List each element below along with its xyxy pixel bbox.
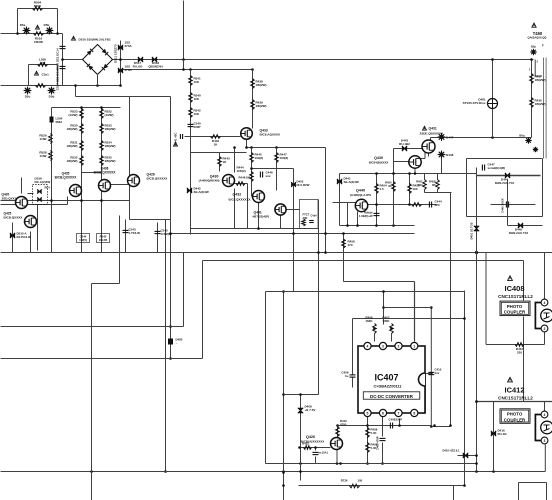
svg-text:D510 S10(M4).2A).FB1: D510 S10(M4).2A).FB1 — [79, 38, 111, 42]
svg-text:B/CB.QXXXXX: B/CB.QXXXXX — [55, 175, 78, 179]
svg-text:xxmd(E)1(R): xxmd(E)1(R) — [488, 166, 506, 170]
svg-text:100K: 100K — [382, 319, 390, 323]
svg-text:3: 3 — [382, 345, 384, 349]
svg-text:1/4W: 1/4W — [39, 154, 46, 158]
svg-text:SE.A(2)4W: SE.A(2)4W — [344, 180, 359, 184]
svg-text:T460: T460 — [533, 31, 543, 36]
svg-text:10K: 10K — [194, 80, 200, 84]
svg-text:R726: R726 — [341, 479, 348, 483]
svg-text:R5: R5 — [432, 183, 436, 187]
svg-text:1W(2W): 1W(2W) — [67, 159, 78, 163]
svg-text:QA05AQXX.QQ: QA05AQXX.QQ — [528, 36, 547, 40]
svg-text:5MH: 5MH — [56, 120, 62, 124]
svg-text:D447: D447 — [446, 136, 454, 140]
svg-text:4: 4 — [544, 301, 546, 305]
svg-text:100: 100 — [413, 187, 418, 191]
svg-text:8: 8 — [413, 412, 415, 416]
svg-text:1xx: 1xx — [435, 371, 440, 375]
svg-text:DC-DC CONVERTER: DC-DC CONVERTER — [370, 394, 414, 399]
svg-text:1.TF3.W: 1.TF3.W — [129, 231, 141, 235]
svg-text:C515 2E2.GC.H: C515 2E2.GC.H — [56, 49, 60, 71]
svg-text:10K: 10K — [194, 112, 200, 116]
svg-text:100: 100 — [246, 176, 251, 180]
svg-text:1D: 1D — [388, 184, 391, 188]
svg-text:RU.AO: RU.AO — [133, 64, 143, 68]
svg-text:B6q: B6q — [519, 134, 524, 138]
svg-text:2SD.QXXX: 2SD.QXXX — [2, 197, 17, 201]
svg-text:FTCT: FTCT — [303, 213, 310, 217]
svg-text:470: 470 — [348, 243, 353, 247]
svg-text:C409 470P: C409 470P — [376, 436, 380, 450]
svg-text:4R7: 4R7 — [40, 61, 46, 65]
svg-text:IC407: IC407 — [374, 373, 398, 383]
svg-text:1W(2W): 1W(2W) — [67, 127, 78, 131]
svg-text:B5p: B5p — [531, 45, 536, 49]
svg-text:R457: R457 — [416, 180, 423, 184]
svg-text:Q431: Q431 — [429, 127, 437, 131]
svg-text:223: 223 — [435, 203, 440, 207]
svg-text:NC.A(2)4W: NC.A(2)4W — [35, 180, 51, 184]
svg-text:FR2W: FR2W — [34, 40, 43, 44]
svg-text:STV20.STV.Diox: STV20.STV.Diox — [463, 101, 486, 105]
svg-text:3: 3 — [544, 439, 546, 443]
svg-text:Rdtvbt: Rdtvbt — [364, 211, 373, 215]
svg-text:Q432: Q432 — [233, 193, 242, 197]
svg-text:(1/2W): (1/2W) — [105, 113, 114, 117]
svg-text:R44: R44 — [418, 183, 423, 187]
svg-text:CNC1S171RLL2: CNC1S171RLL2 — [498, 396, 533, 401]
svg-text:B/C64(B)XXXX: B/C64(B)XXXX — [369, 160, 389, 164]
svg-text:D5a: D5a — [20, 23, 26, 27]
svg-text:xxx: xxx — [266, 174, 271, 178]
svg-text:6: 6 — [382, 412, 384, 416]
svg-text:B/CB.QXXXX: B/CB.QXXXX — [4, 216, 23, 220]
svg-text:1W(2W): 1W(2W) — [105, 159, 116, 163]
svg-text:--: -- — [176, 341, 178, 345]
svg-text:B/CB.QXXXXX: B/CB.QXXXXX — [147, 177, 168, 181]
svg-text:20K: 20K — [303, 216, 308, 220]
svg-text:5.4K: 5.4K — [371, 431, 378, 435]
svg-text:C517 2E2.GC.H: C517 2E2.GC.H — [56, 69, 60, 91]
svg-text:PHOTO: PHOTO — [507, 412, 523, 417]
svg-text:2: 2 — [544, 327, 546, 331]
svg-text:1u: 1u — [345, 374, 349, 378]
svg-text:RU.1B2: RU.1B2 — [399, 142, 410, 146]
svg-text:220P: 220P — [396, 418, 403, 422]
svg-text:10K(2): 10K(2) — [237, 169, 246, 173]
svg-text:DHN.2AU.T01: DHN.2AU.T01 — [509, 231, 529, 235]
svg-text:1W(2W): 1W(2W) — [535, 78, 546, 82]
svg-text:1W(2W): 1W(2W) — [67, 144, 78, 148]
svg-text:R458: R458 — [429, 180, 436, 184]
svg-text:F: F — [542, 44, 544, 48]
svg-text:D5d: D5d — [49, 95, 55, 99]
svg-text:1/4W(B): 1/4W(B) — [161, 232, 172, 236]
svg-text:RU.1B: RU.1B — [498, 432, 508, 436]
svg-text:100(2): 100(2) — [255, 156, 264, 160]
svg-text:IC408: IC408 — [504, 284, 524, 293]
svg-text:1W.R5: 1W.R5 — [99, 238, 108, 242]
svg-text:1.5: 1.5 — [380, 187, 385, 191]
svg-text:C541 45C: C541 45C — [174, 133, 178, 146]
svg-text:RL4: RL4 — [45, 186, 51, 190]
svg-text:D448: D448 — [446, 153, 454, 157]
svg-text:COUPLER: COUPLER — [504, 417, 526, 422]
svg-text:DHN.2AU.T01: DHN.2AU.T01 — [495, 181, 515, 185]
svg-text:PHOTO: PHOTO — [507, 304, 523, 309]
svg-text:(A406/QHHXN): (A406/QHHXN) — [199, 179, 220, 183]
svg-text:D410 HZS.9.1: D410 HZS.9.1 — [442, 449, 460, 453]
svg-text:1W(2W): 1W(2W) — [105, 127, 116, 131]
svg-text:1.XE(D)+W: 1.XE(D)+W — [359, 214, 373, 218]
svg-text:7: 7 — [398, 412, 400, 416]
svg-text:1W(2W): 1W(2W) — [105, 144, 116, 148]
svg-text:CNC1S171RLL2: CNC1S171RLL2 — [498, 294, 533, 299]
svg-text:C5x1: C5x1 — [42, 73, 50, 77]
svg-text:270A: 270A — [125, 68, 133, 72]
svg-text:C4a4: C4a4 — [311, 215, 318, 218]
svg-text:1W(5): 1W(5) — [79, 238, 87, 242]
svg-text:+B 7.5V: +B 7.5V — [305, 408, 316, 412]
svg-text:270A: 270A — [125, 44, 133, 48]
svg-text:B/C8.QXXXXXX: B/C8.QXXXXXX — [229, 198, 251, 202]
svg-text:10K: 10K — [194, 97, 200, 101]
svg-text:B/CB.QXXXXX: B/CB.QXXXXX — [94, 170, 117, 174]
svg-text:Q440: Q440 — [356, 189, 365, 193]
svg-text:D5b: D5b — [44, 23, 50, 27]
svg-text:100(2): 100(2) — [280, 156, 289, 160]
svg-text:C×DBAZZ00111: C×DBAZZ00111 — [374, 384, 402, 388]
svg-text:D511 1SS270: D511 1SS270 — [114, 44, 118, 63]
svg-text:1W(2W): 1W(2W) — [256, 83, 267, 87]
svg-text:162K: 162K — [365, 319, 373, 323]
svg-text:2: 2 — [398, 345, 400, 349]
svg-text:(1/2W): (1/2W) — [69, 113, 78, 117]
svg-text:xx [5A]: xx [5A] — [319, 451, 328, 455]
svg-text:4: 4 — [367, 345, 369, 349]
svg-text:4: 4 — [544, 413, 546, 417]
svg-text:5: 5 — [367, 412, 369, 416]
svg-text:1: 1 — [413, 345, 415, 349]
svg-text:COUPLER: COUPLER — [504, 310, 526, 315]
svg-text:4700: 4700 — [340, 422, 347, 426]
svg-text:D5c: D5c — [25, 95, 31, 99]
svg-text:NU.I.RZW: NU.I.RZW — [297, 183, 310, 187]
svg-text:D451 U2.TOS: D451 U2.TOS — [470, 222, 474, 239]
svg-text:IC412: IC412 — [504, 386, 524, 395]
svg-text:100P: 100P — [194, 125, 201, 129]
svg-text:QBXNZ4H: QBXNZ4H — [148, 64, 162, 68]
svg-text:1/4W: 1/4W — [39, 137, 46, 141]
svg-text:RJ.PG2.W: RJ.PG2.W — [17, 235, 32, 239]
svg-text:SE.A(2)4W: SE.A(2)4W — [194, 190, 209, 194]
svg-text:1W(2W): 1W(2W) — [256, 104, 267, 108]
svg-text:220: 220 — [517, 350, 522, 354]
svg-text:(A406)QLA.IPS: (A406)QLA.IPS — [350, 193, 371, 197]
svg-text:B/C8.AQXXXX: B/C8.AQXXXX — [260, 133, 281, 137]
svg-text:680K: 680K — [34, 4, 42, 8]
svg-text:#B7(23)4(P): #B7(23)4(P) — [253, 215, 270, 219]
svg-text:R425: R425 — [302, 442, 309, 446]
svg-text:1W(2W): 1W(2W) — [535, 102, 546, 106]
svg-text:R450: R450 — [385, 181, 392, 185]
svg-text:C445 XXXX: C445 XXXX — [501, 198, 505, 213]
svg-text:100: 100 — [358, 479, 363, 483]
